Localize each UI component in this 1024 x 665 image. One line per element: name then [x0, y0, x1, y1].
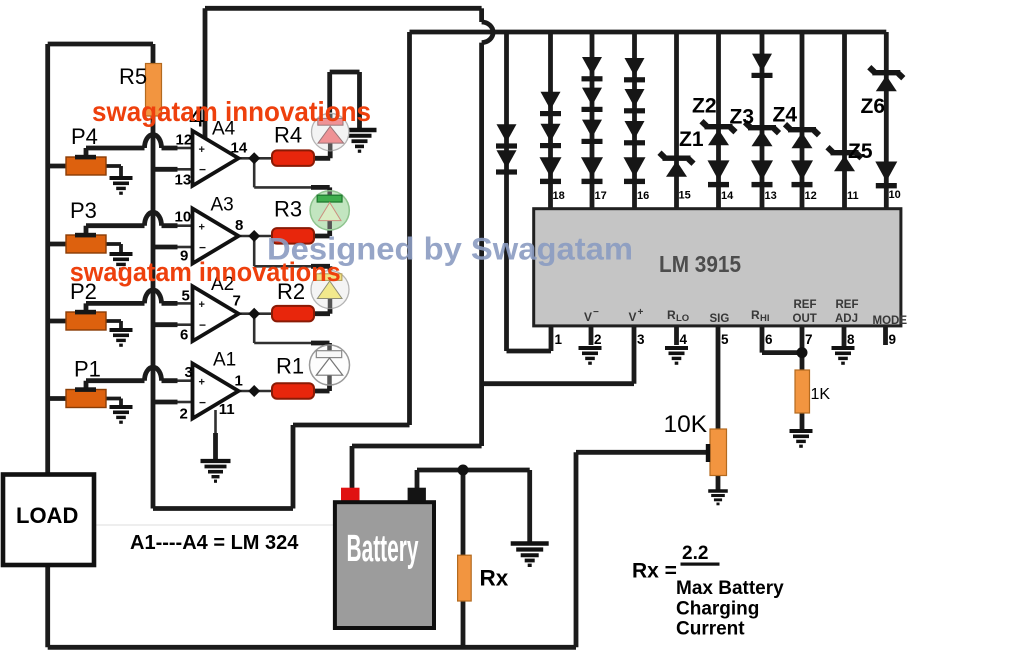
svg-text:14: 14 — [721, 190, 734, 202]
svg-text:MODE: MODE — [873, 315, 908, 327]
svg-text:+: + — [199, 222, 205, 234]
svg-text:5: 5 — [182, 288, 190, 305]
svg-text:LOAD: LOAD — [16, 503, 78, 528]
svg-text:1: 1 — [555, 332, 563, 347]
svg-text:Z4: Z4 — [773, 104, 798, 127]
svg-text:1: 1 — [235, 373, 243, 390]
svg-text:8: 8 — [235, 217, 243, 234]
svg-text:7: 7 — [233, 293, 241, 310]
svg-text:−: − — [199, 240, 206, 254]
svg-text:6: 6 — [180, 327, 188, 344]
svg-text:6: 6 — [765, 332, 773, 347]
svg-text:REF: REF — [836, 299, 859, 311]
svg-text:OUT: OUT — [793, 313, 817, 325]
svg-text:5: 5 — [721, 332, 729, 347]
svg-text:11: 11 — [847, 190, 859, 202]
svg-text:12: 12 — [805, 190, 817, 202]
svg-text:Charging: Charging — [676, 599, 759, 620]
svg-text:R1: R1 — [276, 354, 304, 379]
svg-text:Z6: Z6 — [861, 95, 886, 118]
svg-text:P1: P1 — [74, 357, 101, 382]
svg-text:LO: LO — [676, 313, 689, 324]
svg-text:swagatam innovations: swagatam innovations — [70, 257, 341, 287]
svg-text:−: − — [593, 307, 599, 318]
svg-text:Z2: Z2 — [692, 95, 717, 118]
svg-text:3: 3 — [637, 332, 645, 347]
svg-text:4: 4 — [680, 332, 688, 347]
svg-text:7: 7 — [805, 332, 813, 347]
svg-text:HI: HI — [760, 313, 770, 324]
svg-text:+: + — [199, 377, 205, 389]
svg-text:11: 11 — [219, 401, 235, 418]
svg-text:+: + — [199, 299, 205, 311]
svg-text:Rx =: Rx = — [632, 560, 677, 583]
svg-text:V: V — [584, 310, 592, 324]
svg-text:2: 2 — [594, 332, 602, 347]
svg-text:9: 9 — [889, 332, 897, 347]
svg-text:Z5: Z5 — [848, 140, 873, 163]
svg-text:Z3: Z3 — [730, 106, 755, 129]
svg-text:8: 8 — [847, 332, 855, 347]
svg-text:10K: 10K — [664, 411, 708, 438]
svg-text:LM 3915: LM 3915 — [659, 251, 741, 277]
svg-text:Battery: Battery — [347, 528, 419, 570]
svg-text:−: − — [199, 318, 206, 332]
svg-text:13: 13 — [765, 190, 777, 202]
svg-text:+: + — [199, 144, 205, 156]
svg-text:2.2: 2.2 — [682, 543, 708, 564]
svg-text:10: 10 — [889, 189, 901, 201]
svg-text:13: 13 — [175, 172, 192, 189]
svg-text:ADJ: ADJ — [835, 313, 858, 325]
svg-text:SIG: SIG — [710, 313, 730, 325]
svg-text:18: 18 — [553, 190, 565, 202]
svg-text:−: − — [199, 395, 206, 409]
svg-text:P4: P4 — [71, 124, 98, 149]
svg-text:P3: P3 — [70, 198, 97, 223]
svg-text:+: + — [638, 307, 644, 318]
svg-text:16: 16 — [637, 190, 649, 202]
svg-text:Max Battery: Max Battery — [676, 578, 784, 599]
svg-text:REF: REF — [794, 299, 817, 311]
svg-text:A1: A1 — [213, 350, 236, 371]
svg-text:R5: R5 — [119, 64, 147, 89]
svg-text:R: R — [751, 308, 760, 322]
svg-text:3: 3 — [185, 364, 193, 381]
svg-text:Rx: Rx — [480, 566, 509, 591]
svg-text:1K: 1K — [811, 386, 831, 403]
svg-text:A3: A3 — [211, 195, 234, 216]
svg-text:−: − — [199, 163, 206, 177]
svg-text:R3: R3 — [274, 197, 302, 222]
svg-text:2: 2 — [180, 406, 188, 423]
svg-text:swagatam innovations: swagatam innovations — [92, 96, 371, 127]
svg-text:A1----A4 = LM 324: A1----A4 = LM 324 — [130, 532, 299, 554]
svg-text:17: 17 — [595, 190, 607, 202]
svg-text:14: 14 — [231, 140, 248, 157]
svg-text:Current: Current — [676, 619, 745, 640]
svg-text:V: V — [629, 310, 637, 324]
svg-text:12: 12 — [176, 132, 193, 149]
svg-text:15: 15 — [679, 190, 691, 202]
svg-text:10: 10 — [175, 209, 192, 226]
svg-text:R: R — [667, 308, 676, 322]
svg-text:Z1: Z1 — [679, 128, 704, 151]
